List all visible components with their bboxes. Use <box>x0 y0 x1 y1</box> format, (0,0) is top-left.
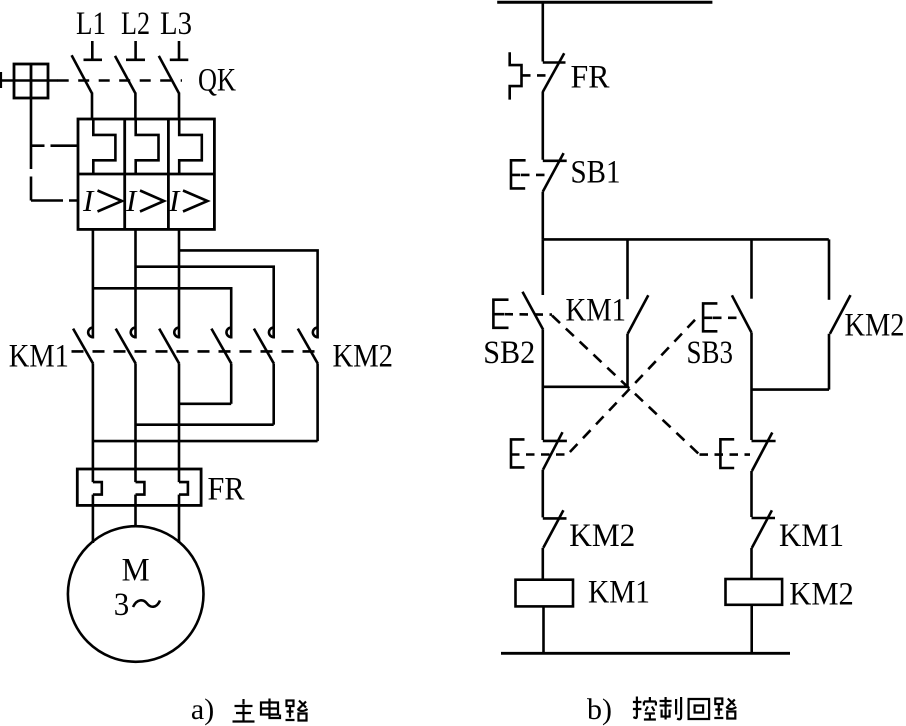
right NC pushbutton head <box>720 439 734 468</box>
svg-text:FR: FR <box>208 472 245 508</box>
KM2 NC contact stop bar <box>543 517 567 520</box>
FR NC contact blade <box>543 53 565 92</box>
wire crossover pole6 to U <box>93 440 318 443</box>
svg-text:L1: L1 <box>76 6 106 42</box>
wire KM2 pole5 output <box>272 364 275 425</box>
svg-text:FR: FR <box>571 60 610 96</box>
svg-text:SB3: SB3 <box>687 335 734 371</box>
branch rail horizontal <box>543 238 829 241</box>
svg-text:a): a) <box>191 693 214 726</box>
KM1 auxiliary NO contact blade <box>628 295 649 334</box>
thermal relay FR box <box>77 469 201 505</box>
contactor KM1 pole1 contact <box>73 328 93 364</box>
caption hanzi zhi <box>660 697 682 720</box>
svg-text:KM1: KM1 <box>588 575 650 611</box>
FR actuator link dashed <box>522 74 551 77</box>
wire U below KM1 pole1 <box>92 364 95 482</box>
wire V below KM1 pole2 <box>134 364 137 482</box>
wire branch phase2 to KM2 pole5 <box>136 267 274 339</box>
wire branch phase3 to KM2 pole6 <box>179 250 318 338</box>
right NC interlocked contact stop bar <box>752 440 776 443</box>
svg-text:QK: QK <box>198 63 236 99</box>
SB1 NC contact stop bar <box>543 160 567 163</box>
wire SB1 to node rail <box>541 192 544 240</box>
wire FR to SB1 <box>541 92 544 160</box>
svg-text:L2: L2 <box>121 6 150 42</box>
wire phase2 below breaker <box>134 229 137 338</box>
KM2 NC contact blade <box>543 510 563 548</box>
svg-text:SB1: SB1 <box>571 155 621 191</box>
SB3 NO contact blade <box>732 295 752 332</box>
wire pole3 to breaker <box>178 93 181 121</box>
SB3 pushbutton head <box>703 303 717 331</box>
wire U to motor <box>92 495 95 543</box>
wire phase1 below breaker <box>92 229 95 338</box>
contactor KM2 pole6 contact <box>298 328 318 364</box>
wire right NC to KM1 NC <box>750 471 753 517</box>
svg-text:KM2: KM2 <box>333 339 394 375</box>
breaker box divider vertical 2 <box>167 119 170 229</box>
SB2 actuator link dashed <box>505 313 553 316</box>
wire pole2 to breaker <box>134 93 137 121</box>
wire left NC to KM2 NC <box>541 470 544 518</box>
FR heater element phase1 <box>93 482 102 495</box>
wire pole1 to breaker <box>91 93 94 121</box>
switch QK pole 3 blade <box>159 56 179 93</box>
breaker QK box <box>78 119 214 229</box>
linkage dashed vertical <box>30 98 33 201</box>
wire rail to SB3 <box>750 239 753 298</box>
left NC interlocked contact blade <box>543 432 563 470</box>
coil KM1 <box>516 580 574 607</box>
wire branch phase1 to KM2 pole4 <box>93 288 231 338</box>
QK handle stub <box>0 72 2 88</box>
svg-text:SB2: SB2 <box>483 335 535 371</box>
overcurrent I> pole 3 <box>168 183 208 218</box>
left NC actuator link dashed <box>511 453 568 456</box>
wire crossover pole4 to W <box>179 402 231 405</box>
FR heater element phase2 <box>136 482 145 495</box>
KM2 auxiliary NO contact blade <box>830 295 851 334</box>
wire KM1 aux lower <box>626 334 629 387</box>
wire W to motor <box>178 495 181 543</box>
KM1 NC contact blade <box>752 510 772 548</box>
caption hanzi dian <box>261 699 280 719</box>
SB3 actuator link dashed <box>713 316 741 319</box>
wire rail to SB2 <box>541 239 544 295</box>
wire KM2 pole4 output <box>230 364 233 404</box>
CTRL-B <box>483 2 904 726</box>
contactor KM1 pole3 contact <box>159 328 179 364</box>
left NC interlocked contact stop bar <box>543 440 567 443</box>
contactor KM1 pole2 contact <box>116 328 136 364</box>
wire SB2 to left node <box>541 330 544 440</box>
wire W below KM1 pole3 <box>178 364 181 482</box>
caption hanzi zhu <box>233 699 255 722</box>
SB1 NC contact blade <box>543 153 564 192</box>
breaker contact pole 1 <box>93 119 115 174</box>
node horizontal left <box>543 385 628 388</box>
SB1 actuator link dashed <box>521 174 552 177</box>
supply rail bottom <box>501 652 790 655</box>
breaker box divider horizontal <box>78 173 214 176</box>
svg-text:KM1: KM1 <box>779 518 844 554</box>
wire phase3 below breaker <box>178 229 181 338</box>
QK mechanical link dashed <box>58 79 182 82</box>
svg-text:L3: L3 <box>160 6 192 42</box>
svg-text:KM2: KM2 <box>789 577 854 613</box>
left NC pushbutton head <box>511 439 525 467</box>
svg-text:I: I <box>168 183 181 218</box>
QK operator line solid <box>0 79 58 82</box>
switch QK pole 1 blade <box>72 55 92 93</box>
wire V to motor <box>134 495 137 527</box>
contactor KM2 pole5 contact <box>254 328 274 364</box>
wire KM2 aux lower <box>828 334 831 390</box>
terminal L1 <box>84 41 103 60</box>
node horizontal right <box>752 388 830 391</box>
FR NC contact stop bar <box>543 61 566 64</box>
wire KM2 pole6 output <box>316 364 319 441</box>
wire coil KM1 to bottom rail <box>542 606 545 653</box>
breaker contact pole 3 <box>179 119 202 174</box>
motor M circle <box>68 526 204 662</box>
caption hanzi lu <box>286 701 308 721</box>
svg-text:M: M <box>122 553 150 589</box>
contactor KM2 pole4 contact <box>211 328 231 364</box>
MAIN-A <box>0 6 393 726</box>
overcurrent I> pole 2 <box>125 183 164 218</box>
right NC interlocked contact blade <box>752 433 772 472</box>
linkage dashed horizontal lower <box>31 199 78 202</box>
wire SB3 to right node <box>750 332 753 440</box>
FR thermal actuator <box>510 52 522 99</box>
linkage dashed horizontal upper <box>31 144 78 147</box>
svg-text:b): b) <box>587 693 612 726</box>
switch QK pole 2 blade <box>115 56 135 93</box>
coil KM2 <box>726 579 783 605</box>
KM1-KM2 contact linkage dashed <box>72 350 323 353</box>
breaker box divider vertical 1 <box>123 119 126 229</box>
motor label 3~ <box>114 587 160 623</box>
caption hanzi hui <box>689 699 710 719</box>
svg-text:I: I <box>125 183 138 218</box>
svg-text:KM2: KM2 <box>569 518 635 554</box>
caption hanzi kong <box>633 697 656 720</box>
breaker contact pole 2 <box>136 119 159 174</box>
svg-text:KM1: KM1 <box>566 293 627 329</box>
wire rail to FR contact <box>541 2 544 61</box>
wire rail to KM2 aux <box>828 239 831 299</box>
wire rail to KM1 aux <box>626 239 629 299</box>
right NC actuator link dashed <box>700 453 751 456</box>
svg-text:I: I <box>82 183 95 218</box>
svg-text:KM2: KM2 <box>845 308 905 344</box>
terminal L2 <box>126 41 145 60</box>
caption hanzi lu2 <box>714 699 736 719</box>
QK operator box <box>14 64 48 98</box>
wire KM1 NC to coil KM2 <box>750 548 753 579</box>
SB1 pushbutton head <box>511 160 526 188</box>
interlock diagonal SB2 to right NC dashed <box>552 316 700 455</box>
svg-text:3: 3 <box>114 587 130 623</box>
wire KM2 NC to coil KM1 <box>541 548 544 580</box>
KM1 NC contact stop bar <box>752 517 776 520</box>
SB2 NO contact blade <box>523 292 544 330</box>
svg-text:KM1: KM1 <box>9 339 69 375</box>
QK operator box divider <box>30 64 33 98</box>
SB2 pushbutton head <box>493 300 508 328</box>
interlock diagonal SB3 to left NC dashed <box>568 320 696 455</box>
FR heater element phase3 <box>179 482 188 495</box>
terminal L3 <box>170 41 189 60</box>
wire coil KM2 to bottom rail <box>750 605 753 654</box>
overcurrent I> pole 1 <box>82 183 122 218</box>
wire crossover pole5 to V <box>136 423 274 426</box>
supply rail top <box>497 1 712 4</box>
